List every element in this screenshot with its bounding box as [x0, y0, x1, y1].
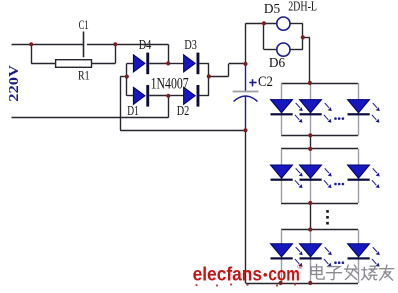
- svg-text:R1: R1: [78, 70, 90, 83]
- svg-text:D1: D1: [127, 104, 139, 119]
- svg-text:1N4007: 1N4007: [151, 75, 189, 93]
- svg-text:D5: D5: [264, 1, 280, 16]
- svg-text:®: ®: [298, 263, 303, 271]
- svg-text:2DH-L: 2DH-L: [288, 0, 317, 14]
- svg-text:elecfans: elecfans: [193, 264, 262, 285]
- svg-text:D3: D3: [184, 36, 197, 52]
- svg-text:220V: 220V: [8, 65, 22, 102]
- svg-text:com: com: [268, 264, 299, 285]
- svg-text:D4: D4: [139, 36, 152, 52]
- svg-text:C1: C1: [79, 19, 89, 33]
- svg-text:D6: D6: [269, 54, 285, 69]
- svg-text:C2: C2: [258, 74, 273, 90]
- svg-text:D2: D2: [177, 103, 190, 119]
